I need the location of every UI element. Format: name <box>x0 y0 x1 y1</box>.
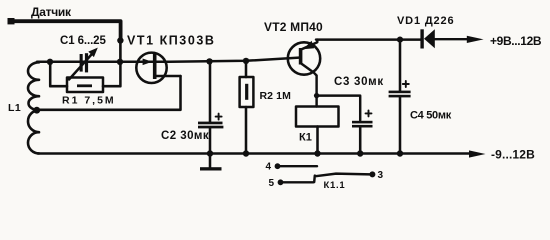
transistor VT1 (JFET KP303V) <box>136 53 180 83</box>
svg-text:C1 6...25: C1 6...25 <box>60 35 106 47</box>
wire C2 lower to ground bar <box>209 128 212 167</box>
wire R2 upper <box>245 61 248 77</box>
label K1 <box>299 132 312 144</box>
label L1 <box>8 102 21 114</box>
label C1 value <box>60 35 106 47</box>
contact K1.1 pin 4 <box>275 163 317 169</box>
wire C2 upper <box>209 61 212 121</box>
label VT2 <box>264 20 323 34</box>
svg-text:VD1 Д226: VD1 Д226 <box>397 15 454 27</box>
svg-text:3: 3 <box>378 170 384 181</box>
svg-text:C4 50мк: C4 50мк <box>410 110 452 122</box>
node C3 rail <box>357 150 363 156</box>
node C4 rail <box>397 150 403 156</box>
label -9...12V <box>491 148 535 162</box>
wire C3 lower <box>359 128 362 154</box>
svg-text:VT2 МП40: VT2 МП40 <box>264 20 323 34</box>
wire R1 right lead <box>103 62 120 86</box>
label R2 value <box>260 90 292 102</box>
svg-text:Датчик: Датчик <box>31 5 72 19</box>
resistor R2 <box>240 77 254 107</box>
output arrow +supply <box>467 36 484 43</box>
label Датчик <box>31 5 72 19</box>
node A tank left <box>47 59 53 65</box>
label VD1 <box>397 15 454 27</box>
wire diode to output <box>435 38 468 40</box>
label pin 4 <box>266 162 272 173</box>
label K1.1 <box>324 180 346 191</box>
node R2 top <box>243 58 249 64</box>
svg-text:К1.1: К1.1 <box>324 180 346 191</box>
relay K1 <box>296 107 339 127</box>
capacitor C4 <box>389 81 411 97</box>
node K1 rail <box>314 150 320 156</box>
node drain/C2 <box>206 58 212 64</box>
label pin 5 <box>269 178 275 189</box>
label C4 value <box>410 110 452 122</box>
node C4 top <box>397 37 403 43</box>
contact K1.1 movable arm <box>314 174 370 182</box>
wire sensor to gate node <box>119 41 122 62</box>
wire C4 lower <box>399 97 402 153</box>
ground <box>200 167 222 170</box>
svg-text:К1: К1 <box>299 132 312 144</box>
svg-text:VT1 КП303В: VT1 КП303В <box>127 34 215 48</box>
svg-text:+9В...12В: +9В...12В <box>490 34 542 48</box>
wire bottom rail <box>38 152 470 155</box>
label C3 value <box>334 76 384 88</box>
label pin 3 <box>378 170 384 181</box>
svg-text:4: 4 <box>266 162 272 173</box>
wire top rail <box>316 38 421 40</box>
svg-text:5: 5 <box>269 178 275 189</box>
wire collector to K1 <box>315 96 317 107</box>
sensor terminal <box>8 18 15 24</box>
contact K1.1 pin 3 <box>369 171 375 177</box>
wire C3 branch <box>317 96 361 121</box>
svg-text:C2 30мк: C2 30мк <box>161 130 209 142</box>
node B gate <box>117 59 123 65</box>
transistor VT2 (PNP MP40) <box>288 40 320 96</box>
svg-text:-9...12В: -9...12В <box>491 148 535 162</box>
node collector branch <box>314 93 319 98</box>
svg-text:L1: L1 <box>8 102 21 114</box>
svg-text:R1 7,5М: R1 7,5М <box>62 95 116 107</box>
wire C4 upper <box>399 40 402 91</box>
wire K1 lower <box>316 127 319 154</box>
capacitor C3 <box>352 110 373 127</box>
node L1 tap <box>33 107 40 114</box>
contact K1.1 pin 5 <box>278 179 314 185</box>
capacitor C2 <box>198 114 223 129</box>
node C2 rail <box>207 150 213 156</box>
label VT1 <box>127 34 215 48</box>
label C2 value <box>161 130 209 142</box>
svg-text:R2 1М: R2 1М <box>260 90 292 102</box>
inductor L1 <box>28 62 39 153</box>
wire left loop down <box>50 62 67 86</box>
svg-text:C3 30мк: C3 30мк <box>334 76 384 88</box>
wire sensor line <box>10 21 121 40</box>
capacitor C1 (trimmer) <box>69 48 98 80</box>
node R2 rail <box>243 150 249 156</box>
node sensor drop <box>117 37 123 43</box>
resistor R1 <box>67 78 103 93</box>
label +9V..12V <box>490 34 542 48</box>
label R1 value <box>62 95 116 107</box>
output arrow -supply <box>469 150 486 157</box>
wire VT1 source return to L1 tap <box>38 76 181 110</box>
wire tank top / gate / drain line <box>37 58 299 62</box>
diode VD1 <box>420 29 434 48</box>
wire R2 lower <box>245 107 248 154</box>
